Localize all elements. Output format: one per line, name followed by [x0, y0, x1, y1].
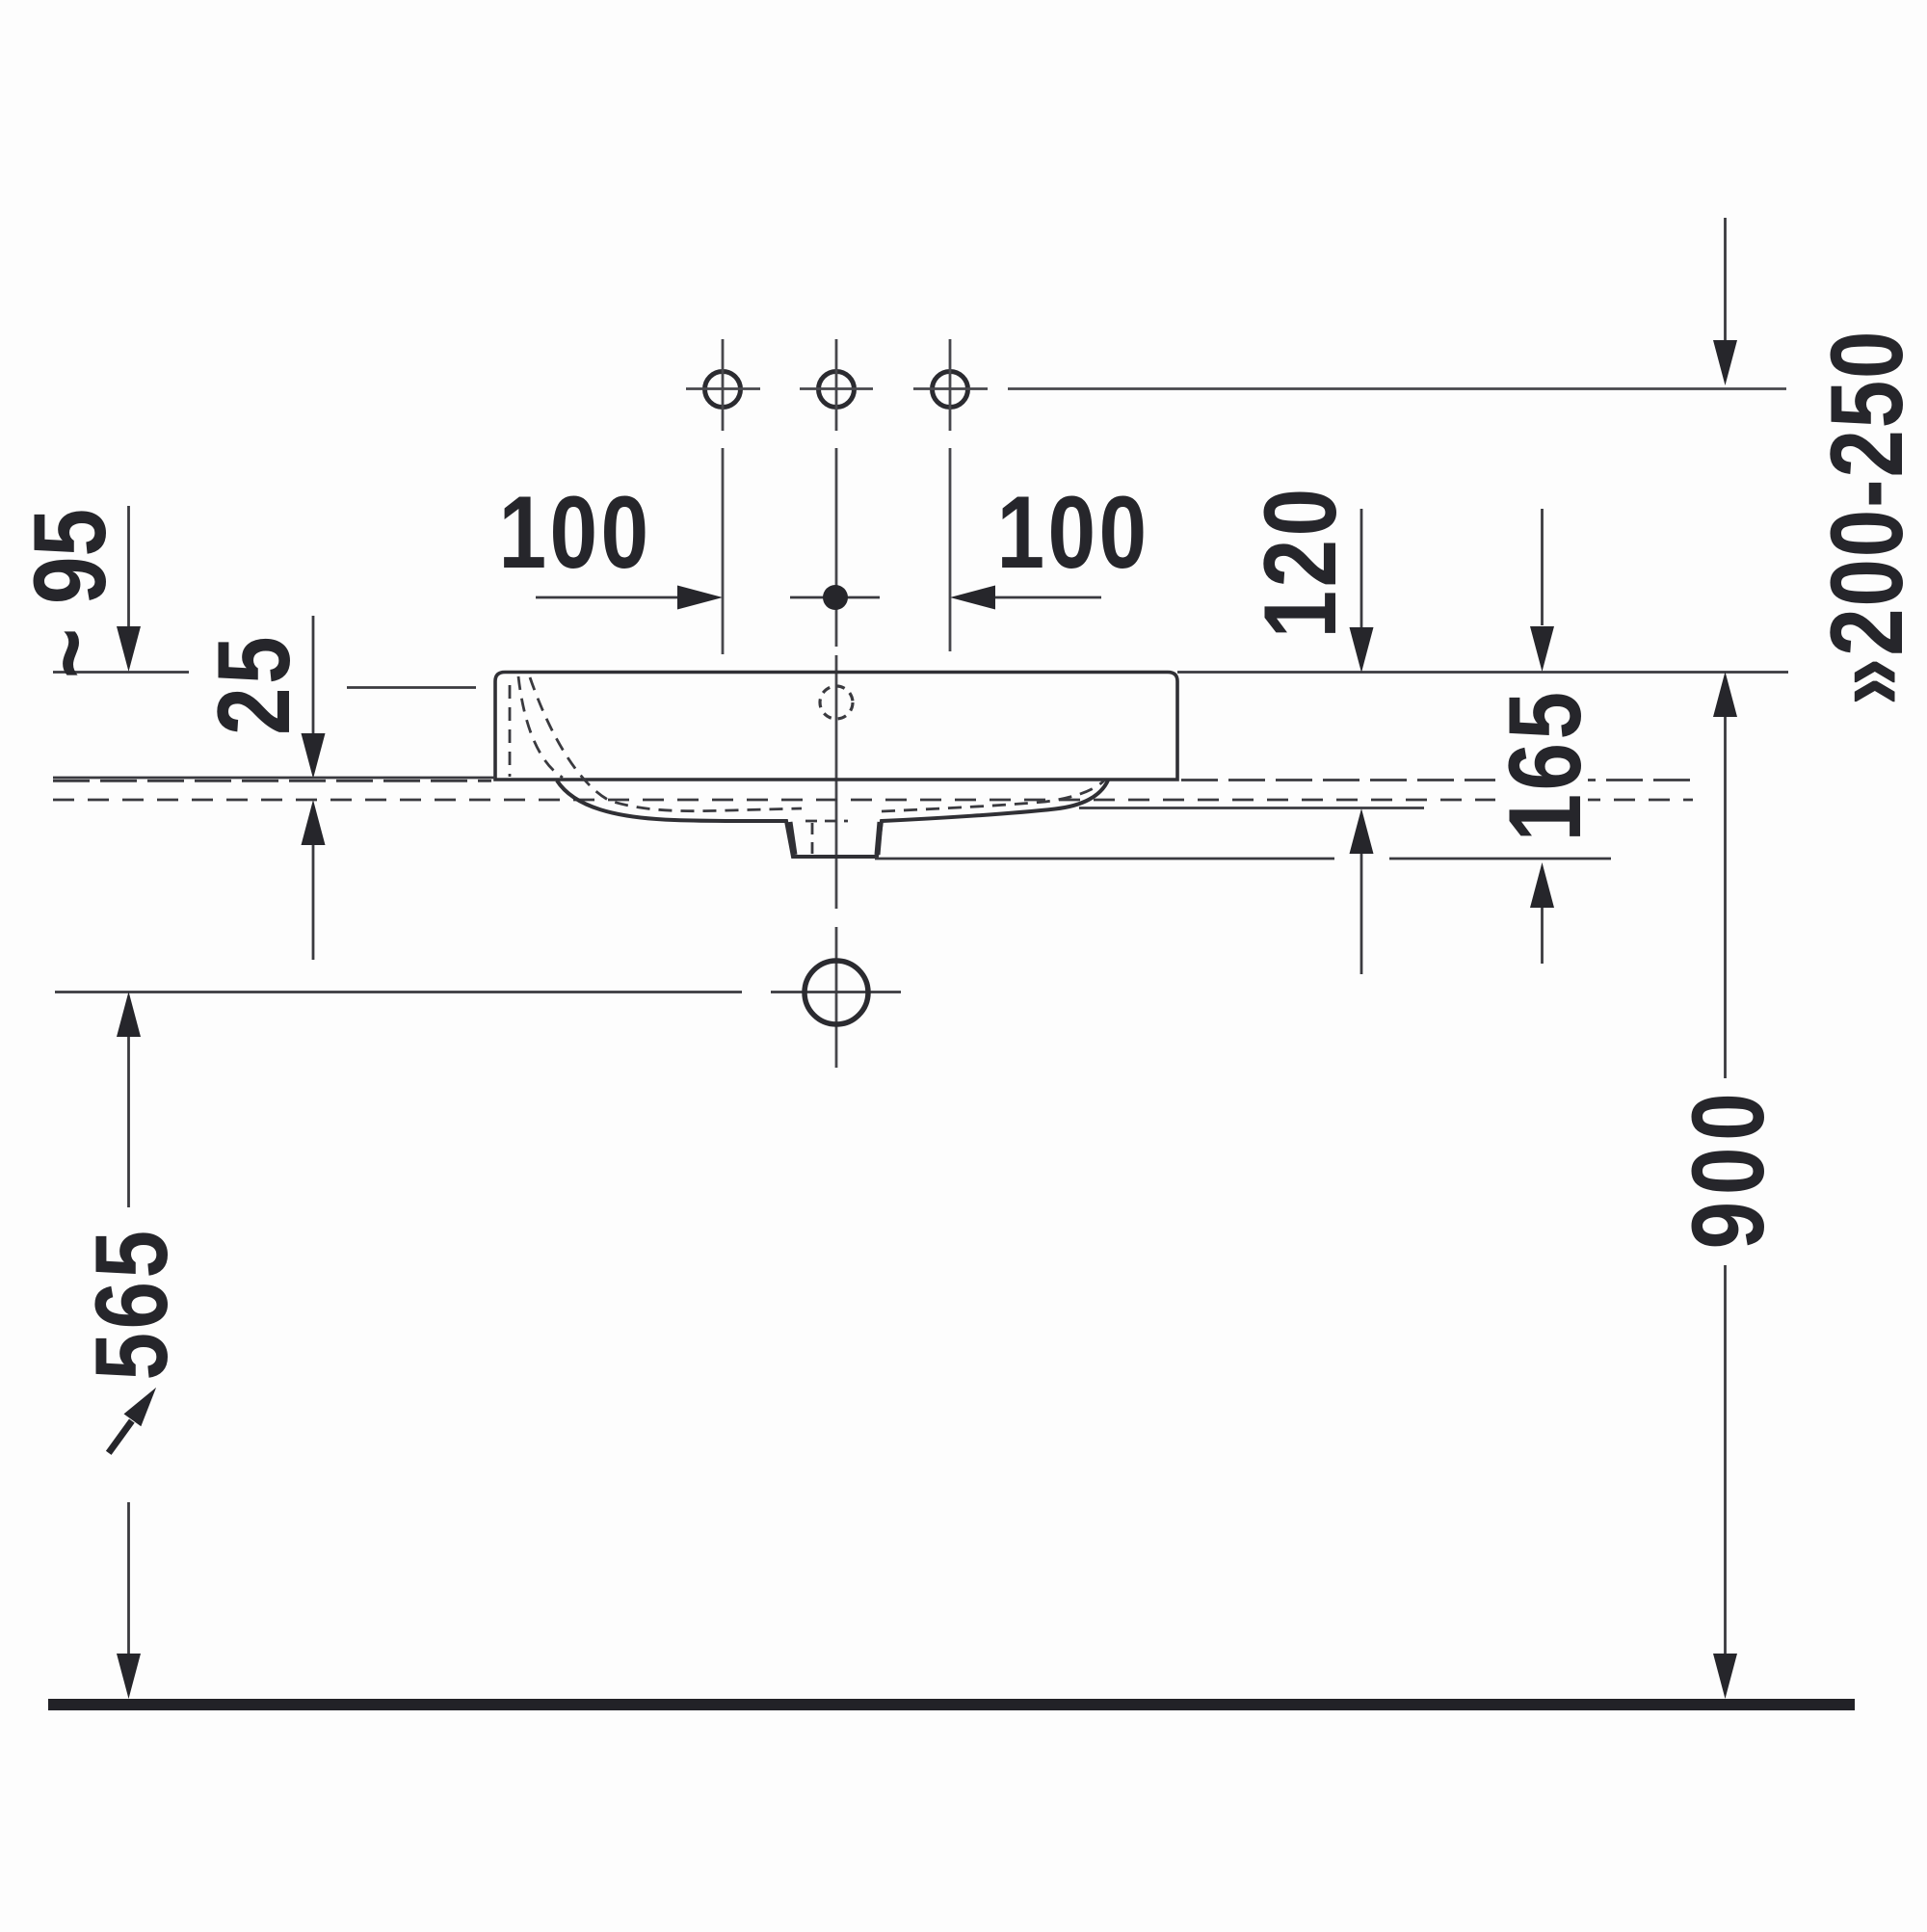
overflow dashed circle: [820, 686, 853, 719]
reference line y=839: [1079, 807, 1424, 809]
dim 120 arrowhead down: [1350, 627, 1374, 673]
svg-text:565: 565: [73, 1228, 188, 1381]
center mark line through dot: [790, 596, 880, 599]
tap hole circle 2: [819, 372, 855, 408]
counter top solid line left: [53, 777, 495, 780]
svg-text:120: 120: [1242, 486, 1357, 639]
dim 565 arrowhead up: [117, 992, 141, 1037]
counter dashed line upper left: [53, 780, 491, 782]
dim 165 lower shaft: [1541, 908, 1544, 964]
dim 120 lower shaft: [1360, 854, 1363, 974]
label 165 halo: [1495, 686, 1588, 838]
dim 165 arrowhead up: [1530, 862, 1554, 908]
svg-text:900: 900: [1670, 1087, 1784, 1250]
small slanted reference arrow: [100, 1381, 165, 1459]
crosshair verticals of tap holes: [723, 339, 950, 431]
dimension line 100 left: [536, 596, 680, 599]
svg-text:~ 95: ~ 95: [12, 509, 126, 678]
basin rim outline: [495, 673, 1177, 781]
dim 565 arrowhead down at floor: [117, 1654, 141, 1699]
dim ~95 arrowhead down: [117, 626, 141, 672]
dim 120 upper shaft: [1360, 509, 1363, 627]
center line below hole 2: [835, 448, 838, 1068]
hidden dashed vertical inside left rim: [509, 685, 512, 777]
filled center dot: [823, 585, 848, 610]
arrowhead left at hole3: [950, 586, 995, 610]
tap hole circle 3: [933, 372, 968, 408]
svg-text:»200-250: »200-250: [1808, 330, 1923, 705]
arrowhead down at tap hole line: [1713, 340, 1737, 385]
drain left wall accent: [790, 822, 795, 855]
reference line y=1029: [55, 991, 742, 993]
dim 165 upper shaft: [1541, 509, 1544, 625]
counter dashed line lower: [53, 799, 1693, 802]
basin top right extension line: [1177, 671, 1788, 674]
dim 25 lower shaft: [312, 845, 315, 960]
basin top left extension line: [53, 671, 189, 674]
dim 565 shaft lower: [127, 1502, 130, 1654]
dim 900 arrowhead down at floor: [1713, 1654, 1737, 1699]
hidden dashed drain horizontal: [805, 820, 848, 823]
dim 165 arrowhead down: [1530, 626, 1554, 672]
hidden dashed inner wall diagonal 2 and bowl inner: [530, 677, 802, 811]
drain bottom extension line segment 2: [1389, 858, 1611, 860]
hidden dashed bowl inner right: [882, 781, 1104, 811]
extension line below hole 1: [722, 448, 725, 654]
dim 25 arrowhead up: [302, 800, 326, 845]
drain outlet circle: [805, 961, 868, 1024]
drain bottom extension line segment 1: [875, 858, 1334, 860]
svg-text:100: 100: [499, 474, 652, 589]
extension line below hole 3: [949, 448, 952, 651]
dim 25 upper shaft: [312, 616, 315, 733]
tap hole line right extension: [1008, 387, 1786, 390]
hidden dashed drain vertical: [811, 823, 814, 854]
short line at y=713 left of basin: [347, 686, 476, 689]
crosshair horizontals of tap holes: [686, 387, 988, 390]
svg-text:100: 100: [997, 474, 1150, 589]
drain right wall accent: [878, 822, 881, 855]
dim 120 arrowhead up: [1350, 808, 1374, 854]
tap hole circle 1: [705, 372, 741, 408]
drain circle crosshair horizontal: [771, 991, 901, 993]
arrowhead up at basin top: [1713, 672, 1737, 717]
dim 25 arrowhead down: [302, 733, 326, 779]
dimension line 100 right: [992, 596, 1101, 599]
svg-text:25: 25: [196, 633, 310, 735]
counter dashed line upper right: [1181, 779, 1693, 781]
dim 900 shaft upper: [1724, 717, 1727, 1078]
svg-text:165: 165: [1487, 689, 1601, 842]
floor line: [48, 1699, 1855, 1710]
dim 565 shaft upper: [127, 1037, 130, 1207]
bowl outline solid: [557, 780, 1109, 858]
right dimension line upper shaft: [1724, 218, 1727, 340]
arrowhead right at hole1: [677, 586, 723, 610]
dim ~95 shaft: [127, 506, 130, 631]
hidden dashed inner wall diagonal 1: [518, 676, 563, 778]
dim 900 shaft lower: [1724, 1265, 1727, 1654]
